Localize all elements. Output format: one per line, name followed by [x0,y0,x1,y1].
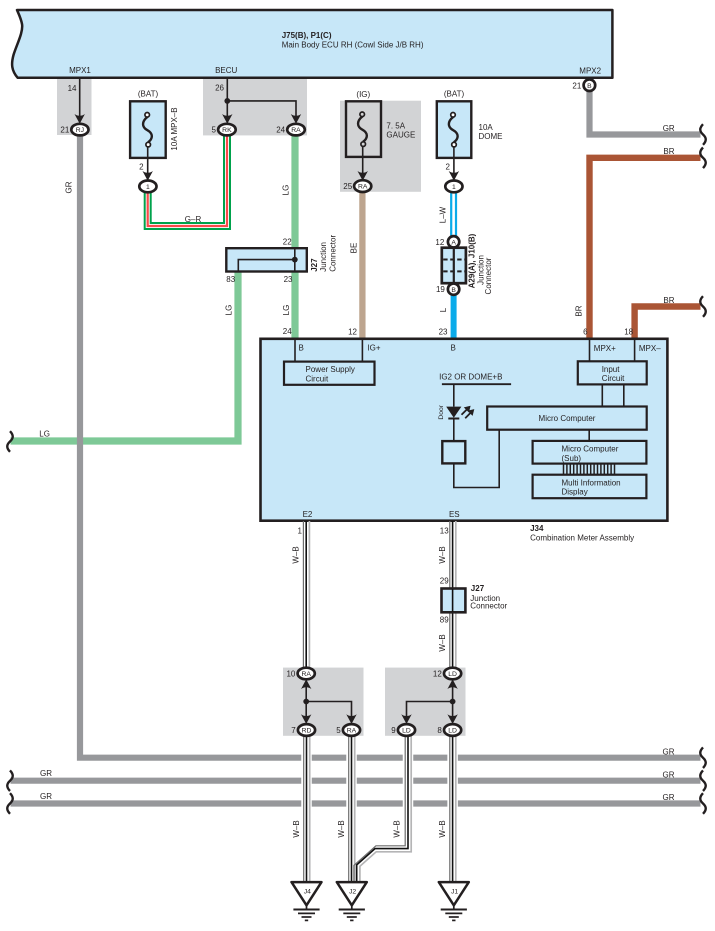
svg-text:7: 7 [291,726,296,735]
svg-text:L–W: L–W [439,206,448,223]
svg-text:Connector: Connector [484,257,493,294]
svg-text:Combination Meter Assembly: Combination Meter Assembly [530,533,634,542]
svg-text:MPX2: MPX2 [579,66,601,75]
svg-text:LG: LG [225,305,234,316]
svg-text:LD: LD [448,671,457,678]
svg-text:LG: LG [282,185,291,196]
svg-text:25: 25 [343,182,352,191]
svg-text:23: 23 [284,275,293,284]
svg-text:21: 21 [572,81,581,90]
svg-text:J75(B), P1(C): J75(B), P1(C) [282,31,332,40]
svg-text:BR: BR [663,147,674,156]
svg-text:Display: Display [562,488,588,497]
svg-text:B: B [299,344,304,353]
svg-text:2: 2 [446,162,451,171]
svg-text:(Sub): (Sub) [562,454,582,463]
svg-text:LG: LG [39,430,50,439]
svg-text:83: 83 [226,275,235,284]
svg-text:W–B: W–B [292,820,301,837]
svg-text:B: B [451,287,456,294]
svg-text:J27: J27 [471,584,485,593]
svg-text:W–B: W–B [393,820,402,837]
svg-text:GR: GR [40,792,52,801]
svg-text:Circuit: Circuit [306,374,329,383]
svg-text:24: 24 [276,126,285,135]
svg-text:2: 2 [139,162,144,171]
svg-text:14: 14 [68,84,77,93]
svg-text:12: 12 [433,669,442,678]
svg-text:A29(A), J10(B): A29(A), J10(B) [468,233,477,288]
svg-text:12: 12 [435,238,444,247]
svg-text:Multi Information: Multi Information [562,478,621,487]
svg-text:J1: J1 [451,888,458,895]
svg-text:RA: RA [301,671,311,678]
svg-text:G–R: G–R [185,215,202,224]
svg-text:J4: J4 [304,888,311,895]
svg-text:RA: RA [347,728,357,735]
svg-text:B: B [587,83,592,90]
svg-text:Input: Input [602,365,621,374]
svg-text:(BAT): (BAT) [444,90,465,99]
svg-text:(BAT): (BAT) [138,90,159,99]
svg-text:DOME: DOME [479,132,503,141]
svg-text:IG+: IG+ [367,344,380,353]
svg-text:RJ: RJ [76,127,84,134]
svg-text:1: 1 [452,184,456,191]
svg-text:W–B: W–B [438,820,447,837]
svg-text:W–B: W–B [438,546,447,563]
svg-text:Junction: Junction [319,242,328,272]
svg-text:GR: GR [663,747,675,756]
svg-text:MPX1: MPX1 [69,66,91,75]
svg-text:9: 9 [391,726,396,735]
svg-text:W–B: W–B [292,546,301,563]
svg-text:21: 21 [60,126,69,135]
svg-text:RK: RK [222,127,232,134]
svg-text:10A: 10A [479,123,494,132]
svg-text:J27: J27 [310,258,319,272]
svg-text:B: B [451,344,456,353]
svg-text:MPX–: MPX– [639,344,661,353]
svg-text:23: 23 [439,328,448,337]
svg-text:24: 24 [283,327,292,336]
svg-text:A: A [451,239,456,246]
svg-text:13: 13 [440,527,449,536]
svg-text:ES: ES [449,510,460,519]
svg-text:W–B: W–B [337,820,346,837]
svg-text:Connector: Connector [329,235,338,272]
svg-text:(IG): (IG) [356,90,370,99]
svg-text:26: 26 [215,84,224,93]
svg-text:E2: E2 [303,510,313,519]
svg-text:10: 10 [286,669,295,678]
svg-text:89: 89 [440,616,449,625]
svg-text:BE: BE [350,243,359,254]
svg-text:29: 29 [440,576,449,585]
svg-text:GR: GR [65,181,74,193]
svg-text:Micro Computer: Micro Computer [539,414,596,423]
svg-text:Connector: Connector [470,602,507,611]
svg-text:GR: GR [663,124,675,133]
svg-text:GR: GR [40,769,52,778]
svg-text:12: 12 [348,328,357,337]
svg-text:W–B: W–B [438,634,447,651]
svg-text:J2: J2 [349,888,356,895]
svg-text:GR: GR [663,793,675,802]
svg-text:IG2 OR DOME+B: IG2 OR DOME+B [439,373,502,382]
svg-text:L: L [439,307,448,312]
svg-text:LD: LD [448,728,457,735]
svg-text:LG: LG [282,305,291,316]
svg-text:LD: LD [402,728,411,735]
svg-text:5: 5 [336,726,341,735]
svg-text:MPX+: MPX+ [594,344,616,353]
svg-text:10A MPX–B: 10A MPX–B [170,107,179,150]
svg-text:Power Supply: Power Supply [306,365,355,374]
svg-text:8: 8 [437,726,442,735]
svg-text:Main Body ECU RH (Cowl Side J/: Main Body ECU RH (Cowl Side J/B RH) [282,40,424,49]
svg-text:BR: BR [575,305,584,316]
svg-text:19: 19 [436,285,445,294]
svg-text:Micro Computer: Micro Computer [562,445,619,454]
svg-text:6: 6 [583,328,588,337]
svg-text:J34: J34 [530,524,544,533]
svg-text:1: 1 [146,184,150,191]
svg-text:RA: RA [358,184,368,191]
svg-text:7. 5A: 7. 5A [386,121,405,130]
svg-text:18: 18 [624,328,633,337]
svg-text:RA: RA [291,127,301,134]
svg-text:5: 5 [212,126,217,135]
svg-text:1: 1 [298,527,303,536]
svg-text:GR: GR [663,770,675,779]
svg-text:RD: RD [302,728,312,735]
svg-text:Door: Door [438,404,445,419]
svg-text:22: 22 [283,238,292,247]
svg-text:BECU: BECU [215,66,237,75]
svg-text:Circuit: Circuit [602,374,625,383]
svg-text:GAUGE: GAUGE [386,131,415,140]
svg-text:BR: BR [663,296,674,305]
